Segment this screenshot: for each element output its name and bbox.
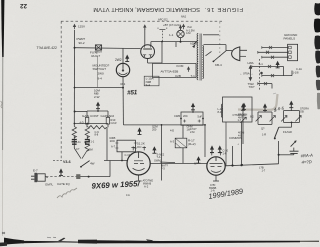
svg-text:C-13: C-13 bbox=[125, 153, 131, 157]
svg-text:C-1A: C-1A bbox=[296, 67, 302, 71]
svg-text:#RA-A: #RA-A bbox=[300, 153, 313, 159]
svg-text:#51: #51 bbox=[127, 89, 138, 96]
svg-text:4M?: 4M? bbox=[238, 115, 244, 119]
svg-text:A-7: A-7 bbox=[111, 144, 116, 148]
svg-text:4-M: 4-M bbox=[186, 31, 190, 35]
svg-text:A-2: A-2 bbox=[144, 185, 149, 189]
svg-text:T?iA AVE-422: T?iA AVE-422 bbox=[37, 46, 57, 50]
svg-text:4-D: 4-D bbox=[170, 128, 174, 132]
svg-text:FIGURE 16.: FIGURE 16. bbox=[204, 6, 243, 12]
svg-text:7-A: 7-A bbox=[157, 155, 161, 159]
svg-text:200: 200 bbox=[152, 128, 157, 132]
svg-text:KB-4: KB-4 bbox=[215, 63, 222, 67]
svg-text:Pwr: Pwr bbox=[188, 25, 193, 29]
svg-text:1-R: 1-R bbox=[262, 133, 266, 137]
svg-text:GAIN CONT: GAIN CONT bbox=[82, 114, 99, 118]
svg-text:3A R-?: 3A R-? bbox=[91, 54, 101, 58]
svg-text:R-1: R-1 bbox=[121, 82, 126, 86]
svg-text:KOM: KOM bbox=[177, 64, 184, 68]
svg-text:4=?D: 4=?D bbox=[301, 159, 311, 165]
svg-text:SCHEMATIC DIAGRAM, KNIGHT VTVM: SCHEMATIC DIAGRAM, KNIGHT VTVM bbox=[93, 6, 200, 12]
svg-text:CWR: CWR bbox=[174, 114, 180, 118]
svg-text:TW?: TW? bbox=[249, 85, 255, 89]
svg-text:C?: C? bbox=[76, 147, 80, 151]
svg-text:V3-6: V3-6 bbox=[63, 160, 71, 164]
svg-text:125V: 125V bbox=[78, 25, 85, 29]
svg-text:E-7: E-7 bbox=[33, 168, 38, 172]
svg-text:← 0?9A →: ← 0?9A → bbox=[240, 72, 254, 76]
svg-text:2-W: 2-W bbox=[94, 95, 100, 99]
svg-text:1-1: 1-1 bbox=[169, 33, 174, 37]
svg-text:CA?E 3Q: CA?E 3Q bbox=[57, 182, 70, 186]
svg-text:8-2: 8-2 bbox=[250, 115, 254, 119]
svg-text:Q?: Q? bbox=[261, 126, 265, 130]
svg-text:4 A: 4 A bbox=[126, 193, 130, 197]
svg-text:T-1: T-1 bbox=[191, 74, 196, 78]
svg-text:C?A?: C?A? bbox=[190, 127, 197, 131]
svg-text:PANELS: PANELS bbox=[284, 36, 296, 40]
svg-text:APC-D2: APC-D2 bbox=[158, 17, 168, 21]
svg-text:5uF: 5uF bbox=[198, 115, 203, 119]
svg-text:C2-R: C2-R bbox=[111, 121, 117, 125]
svg-text:S-1: S-1 bbox=[259, 62, 264, 66]
svg-text:(R+2): (R+2) bbox=[188, 142, 196, 146]
svg-text:2W0: 2W0 bbox=[98, 72, 105, 76]
svg-text:22: 22 bbox=[20, 2, 27, 9]
svg-text:NA2: NA2 bbox=[181, 15, 187, 19]
svg-text:LWA: LWA bbox=[248, 61, 254, 65]
svg-text:GAIN ADJ: GAIN ADJ bbox=[101, 114, 115, 118]
svg-text:AVTT3A-E5B: AVTT3A-E5B bbox=[161, 70, 179, 74]
svg-text:9-4: 9-4 bbox=[98, 76, 103, 80]
svg-text:C2B: C2B bbox=[175, 74, 181, 78]
svg-text:GM: GM bbox=[89, 147, 93, 151]
svg-text:?-3: ?-3 bbox=[161, 167, 165, 171]
svg-text:20C: 20C bbox=[183, 114, 188, 118]
svg-text:90-2: 90-2 bbox=[79, 41, 85, 45]
svg-text:9-A: 9-A bbox=[146, 83, 151, 87]
svg-text:A2005: A2005 bbox=[190, 41, 198, 45]
svg-text:8-8: 8-8 bbox=[95, 133, 99, 137]
svg-text:4-D: 4-D bbox=[238, 134, 242, 138]
svg-text:1-1: 1-1 bbox=[91, 140, 95, 144]
svg-text:2W2: 2W2 bbox=[115, 58, 122, 62]
svg-text:8-12: 8-12 bbox=[218, 110, 224, 114]
svg-text:A-3: A-3 bbox=[170, 140, 175, 144]
svg-text:F1/GR: F1/GR bbox=[283, 130, 293, 134]
svg-text:A1: A1 bbox=[78, 140, 82, 144]
svg-text:SWITCH?: SWITCH? bbox=[93, 67, 107, 71]
svg-text:1-7: 1-7 bbox=[262, 169, 266, 173]
svg-text:M?: M? bbox=[194, 162, 198, 166]
svg-text:4W: 4W bbox=[90, 162, 95, 166]
svg-text:1-R: 1-R bbox=[223, 151, 227, 155]
svg-text:C?O?: C?O? bbox=[95, 50, 102, 54]
svg-text:GM?L: GM?L bbox=[45, 183, 54, 187]
svg-text:GWM: GWM bbox=[154, 159, 161, 163]
svg-text:10C: 10C bbox=[110, 139, 116, 143]
svg-text:OB: OB bbox=[300, 110, 304, 114]
svg-text:1-1/8: 1-1/8 bbox=[293, 70, 299, 74]
svg-text:+B? (C?-C2A): +B? (C?-C2A) bbox=[163, 23, 181, 27]
svg-text:4-D: 4-D bbox=[80, 121, 84, 125]
